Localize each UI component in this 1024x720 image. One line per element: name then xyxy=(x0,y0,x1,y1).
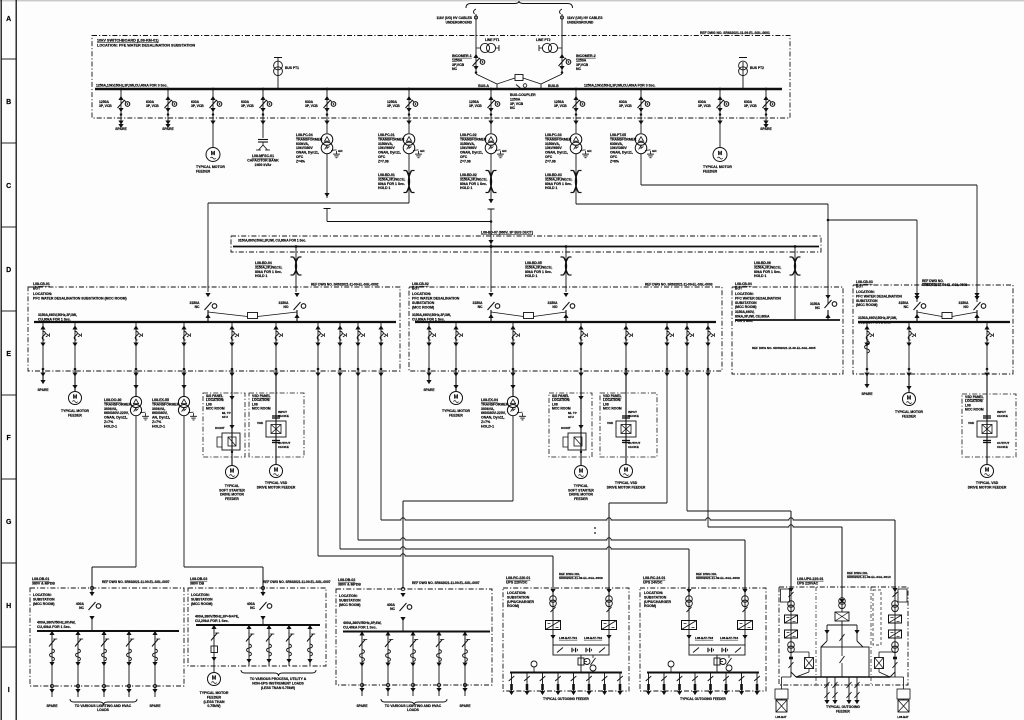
CB-03 motor feeder xyxy=(908,322,910,372)
UPS AC inner partition xyxy=(815,587,817,685)
MV motor feeder right (630A) xyxy=(719,89,721,147)
wire left MCC f7 to UPS1 incomer 1 xyxy=(318,554,553,556)
svg-text:REF DWG NO. SR632021-11-09-EL-: REF DWG NO. SR632021-11-09-EL-SGL-0007 xyxy=(263,580,331,584)
svg-text:L08-BAT: L08-BAT xyxy=(897,715,909,719)
cable termination to CB-04 route xyxy=(324,208,331,210)
left MCC long feeder 10 xyxy=(380,322,382,372)
UPS AC output bus and feeders xyxy=(796,676,890,678)
svg-text:(MCC ROOM): (MCC ROOM) xyxy=(412,306,434,310)
svg-text:LOCATION:: LOCATION: xyxy=(191,593,210,597)
svg-text:UNDERGROUND: UNDERGROUND xyxy=(446,21,473,25)
DB-01 underbrace lighting loads xyxy=(70,699,137,705)
svg-text:L08-BD-03: L08-BD-03 xyxy=(545,173,562,177)
svg-text:L08-BD-04: L08-BD-04 xyxy=(255,261,272,265)
UPS incomer at 689 xyxy=(688,588,690,645)
svg-text:CU,80kA FOR 1 Sec.: CU,80kA FOR 1 Sec. xyxy=(38,317,71,321)
UPS bypass switch xyxy=(592,655,594,658)
svg-text:380V & MPDB: 380V & MPDB xyxy=(32,581,55,585)
svg-text:G: G xyxy=(6,519,12,526)
MV transformer feeder L08-PC-01 3150kVA xyxy=(408,89,410,133)
svg-text:UPS 220VDC: UPS 220VDC xyxy=(506,580,528,584)
svg-text:I: I xyxy=(8,687,10,694)
svg-text:BOT: BOT xyxy=(735,286,743,290)
svg-text:HOLD 1: HOLD 1 xyxy=(378,186,391,190)
CB-04 incomer breaker xyxy=(825,295,830,299)
MV capacitor bank feeder (630A) xyxy=(262,89,264,138)
svg-text:NO: NO xyxy=(963,305,968,309)
svg-text:L08-CB-03: L08-CB-03 xyxy=(856,280,873,284)
svg-text:FEEDER: FEEDER xyxy=(68,413,82,417)
center MCC long feeder 6 xyxy=(666,322,668,372)
MCC L08-CB-04 dashed enclosure xyxy=(732,287,843,374)
UPS dc link to bus xyxy=(716,655,718,673)
svg-text:M: M xyxy=(579,469,584,475)
svg-text:NC: NC xyxy=(815,306,820,310)
UPS DC bus xyxy=(647,672,759,674)
UPS AC system L08-UPS-220-01 enclosure xyxy=(779,587,908,685)
svg-text:CHOKE: CHOKE xyxy=(997,414,1008,418)
bus PT1 xyxy=(277,62,279,89)
svg-text:FEEDER: FEEDER xyxy=(574,497,588,501)
UPS AC inner output box xyxy=(821,647,869,677)
svg-text:REF DWG NO. SR632021-11-09-EL-: REF DWG NO. SR632021-11-09-EL-SGL-0007 xyxy=(412,581,480,585)
svg-text:L08-CB-01: L08-CB-01 xyxy=(33,282,50,286)
CB-03 feeder spare xyxy=(866,322,868,372)
svg-text:3150A,660V,50Hz,3P,3W, CU,80kA: 3150A,660V,50Hz,3P,3W, CU,80kA FOR 1 Sec… xyxy=(238,239,306,243)
svg-text:Z=7%: Z=7% xyxy=(104,420,114,424)
svg-text:LOCATION:: LOCATION: xyxy=(735,292,754,296)
svg-text:SPARE: SPARE xyxy=(861,392,873,396)
svg-text:SPARE: SPARE xyxy=(356,704,368,708)
svg-text:NC: NC xyxy=(904,305,909,309)
MV transformer feeder L08-PC-03 3150kVA xyxy=(575,89,577,133)
svg-text:L08-BAT-T04: L08-BAT-T04 xyxy=(720,636,738,640)
svg-text:HOLD 1: HOLD 1 xyxy=(545,186,558,190)
MV feeder spare 1 (1250A) xyxy=(120,89,122,124)
svg-text:HOLD 1: HOLD 1 xyxy=(754,274,767,278)
svg-text:FEEDER: FEEDER xyxy=(196,169,211,173)
svg-text:630kVA,: 630kVA, xyxy=(610,142,623,146)
svg-text:400A,380V/50Hz,3P,4W,: 400A,380V/50Hz,3P,4W, xyxy=(37,621,75,625)
left MCC motor feeder xyxy=(74,322,76,372)
svg-text:ROOM): ROOM) xyxy=(644,604,656,608)
ellipsis marks xyxy=(594,527,596,529)
wire left xfmr f4 to DB-03 incomer xyxy=(184,566,263,568)
svg-text:(UPS/CHARGER: (UPS/CHARGER xyxy=(644,600,672,604)
DB-03 feeders xyxy=(248,625,250,666)
svg-text:80kA FOR 1 Sec.: 80kA FOR 1 Sec. xyxy=(255,270,282,274)
bus-coupler breaker on bus xyxy=(516,85,522,90)
UPS AC rectifier branch left xyxy=(790,587,792,677)
svg-text:TYPICAL OUTGOING FEEDER: TYPICAL OUTGOING FEEDER xyxy=(543,697,589,701)
svg-text:D: D xyxy=(6,267,11,274)
main 11kV bus xyxy=(95,88,782,91)
bus duct drop L08-BD-04 to left MCC xyxy=(295,247,297,293)
incomer cable 2 (11kV UG HV cables) xyxy=(560,9,562,14)
bus duct drop L08-BD-05 to center MCC xyxy=(565,247,567,293)
svg-text:BUS PT1: BUS PT1 xyxy=(285,66,299,70)
svg-text:ICONT: ICONT xyxy=(215,426,225,430)
svg-text:CU,80kA FOR 1 Sec.: CU,80kA FOR 1 Sec. xyxy=(412,317,445,321)
svg-text:80kA FOR 1 Sec.: 80kA FOR 1 Sec. xyxy=(525,270,552,274)
UPS DC bus xyxy=(510,672,622,674)
UPS enclosure L08-RC-220-01 xyxy=(503,588,629,691)
left MCC VSD panel feeder xyxy=(275,322,277,372)
svg-text:3P, VCB: 3P, VCB xyxy=(99,104,112,108)
svg-text:400A,380V/50Hz,3P+N+PE,: 400A,380V/50Hz,3P+N+PE, xyxy=(195,615,239,619)
svg-text:3P, VCB: 3P, VCB xyxy=(241,104,254,108)
svg-text:LOCATION:: LOCATION: xyxy=(507,591,526,595)
svg-text:3P, VCB: 3P, VCB xyxy=(619,104,632,108)
svg-text:L08-DB-01: L08-DB-01 xyxy=(32,577,49,581)
UPS bypass switch xyxy=(728,655,730,658)
svg-text:Z=7.08: Z=7.08 xyxy=(460,159,471,163)
svg-text:660/380V-220V,: 660/380V-220V, xyxy=(104,411,129,415)
incoming cable brace xyxy=(466,1,573,8)
svg-text:11kV (UG) HV CABLES: 11kV (UG) HV CABLES xyxy=(436,16,472,20)
left MCC soft-starter panel feeder xyxy=(231,322,233,372)
svg-text:3P,VCB: 3P,VCB xyxy=(452,63,465,67)
left MCC long feeder 9 xyxy=(357,322,359,372)
incomer-2 breaker 1250A 3P VCB NC xyxy=(561,48,563,74)
svg-text:(MCC ROOM): (MCC ROOM) xyxy=(191,602,212,606)
svg-text:SR632021-11-09-EL-SGL-0009: SR632021-11-09-EL-SGL-0009 xyxy=(559,576,603,580)
distribution board L08-DB-01 enclosure xyxy=(30,588,184,686)
svg-text:TYPICAL OUTGOING FEEDER: TYPICAL OUTGOING FEEDER xyxy=(680,697,726,701)
svg-text:(MCC ROOM): (MCC ROOM) xyxy=(856,303,877,307)
bus duct conductor xyxy=(233,246,819,248)
svg-text:300kVA,: 300kVA, xyxy=(104,407,117,411)
svg-text:TRANSFORMER: TRANSFORMER xyxy=(610,137,637,141)
svg-text:80kA FOR 1 Sec.: 80kA FOR 1 Sec. xyxy=(378,182,405,186)
svg-text:LINE PT2: LINE PT2 xyxy=(536,38,551,42)
wire left MCC f10 to UPS3 incomer 3 xyxy=(381,518,895,520)
svg-text:OFC: OFC xyxy=(545,155,553,159)
svg-text:FEEDER: FEEDER xyxy=(902,414,916,418)
svg-text:L08-BD-05: L08-BD-05 xyxy=(525,261,542,265)
svg-text:3P, VCB: 3P, VCB xyxy=(698,104,711,108)
svg-text:HOLD-1: HOLD-1 xyxy=(481,424,494,428)
svg-text:L08-PC-01: L08-PC-01 xyxy=(378,133,395,137)
svg-text:10kV/660V: 10kV/660V xyxy=(378,146,396,150)
svg-text:3P, VCB: 3P, VCB xyxy=(510,102,524,106)
svg-text:3P,VCB: 3P,VCB xyxy=(576,63,589,67)
svg-text:HOLD-1: HOLD-1 xyxy=(104,424,117,428)
svg-text:NC: NC xyxy=(510,106,516,110)
svg-text:BUS-B: BUS-B xyxy=(548,84,559,88)
left MCC bus xyxy=(34,321,396,323)
UPS incomer at 553 xyxy=(552,588,554,645)
center MCC incomer downcomer xyxy=(490,247,492,292)
svg-text:L08-DO-30: L08-DO-30 xyxy=(104,398,122,402)
svg-text:(MCC ROOM): (MCC ROOM) xyxy=(33,602,54,606)
svg-text:SFU: SFU xyxy=(222,415,228,419)
svg-text:L08-MFSC-01: L08-MFSC-01 xyxy=(252,154,274,158)
svg-text:FEEDER: FEEDER xyxy=(703,169,718,173)
MV transformer feeder L08-PC-02 3150kVA xyxy=(490,89,492,133)
svg-text:660/380V-220V,: 660/380V-220V, xyxy=(481,411,506,415)
svg-text:TRANSFORMER: TRANSFORMER xyxy=(152,402,180,406)
svg-text:LOADS: LOADS xyxy=(97,708,110,712)
svg-text:L08-CB-04: L08-CB-04 xyxy=(735,282,752,286)
svg-text:Z=7.08: Z=7.08 xyxy=(545,159,556,163)
left MCC transformer feeder L08-EX-55 xyxy=(183,322,185,372)
svg-text:M: M xyxy=(212,676,217,682)
svg-text:L08-PT-05: L08-PT-05 xyxy=(610,133,626,137)
UPS bus voltmeter stub xyxy=(670,667,672,673)
MV feeder spare right (630A) xyxy=(765,89,767,124)
11kV switchboard dashed enclosure L08-KM-01 xyxy=(92,36,790,119)
svg-text:HOLD 1: HOLD 1 xyxy=(255,274,268,278)
svg-text:L08-EX-04: L08-EX-04 xyxy=(481,398,498,402)
svg-text:FEEDER: FEEDER xyxy=(225,497,239,501)
svg-text:380V & MPDB: 380V & MPDB xyxy=(338,582,361,586)
svg-text:SR632021-11-09-EL-SGL-0008: SR632021-11-09-EL-SGL-0008 xyxy=(922,283,967,287)
incomer-1 breaker 1250A 3P VCB NC xyxy=(475,48,477,74)
bus duct L08-BD-07 dashed enclosure xyxy=(231,236,821,252)
DB-01 feeders xyxy=(51,631,53,697)
svg-text:TO VARIOUS PROCESS, UTILITY &: TO VARIOUS PROCESS, UTILITY & xyxy=(250,677,307,681)
svg-text:SUBSTATION: SUBSTATION xyxy=(33,597,55,601)
svg-text:ONAN, Dyn11,: ONAN, Dyn11, xyxy=(610,151,633,155)
MCC L08-CB-03 dashed enclosure xyxy=(853,285,1013,374)
DB-02 underbrace lighting loads xyxy=(381,699,447,705)
svg-text:3150A,3P,3W,CU,: 3150A,3P,3W,CU, xyxy=(378,177,405,181)
svg-text:A: A xyxy=(6,16,11,23)
incomer cable 1 (11kV UG HV cables) xyxy=(474,9,476,14)
svg-text:PFC WATER DESALINATION: PFC WATER DESALINATION xyxy=(412,297,460,301)
svg-text:LOCATION:: LOCATION: xyxy=(33,593,52,597)
svg-text:SPARE: SPARE xyxy=(423,388,435,392)
center MCC L08-CB-02 dashed enclosure xyxy=(409,287,722,371)
UPS AC battery right xyxy=(875,658,884,669)
UPS AC side compartment labels xyxy=(781,589,790,602)
UPS battery tie assembly xyxy=(689,645,745,655)
svg-text:L08-UPS-220-01: L08-UPS-220-01 xyxy=(797,577,824,581)
wire T-PC-03 to CB-04 and CB-03 xyxy=(576,203,828,205)
svg-text:FEEDER: FEEDER xyxy=(836,709,850,713)
svg-text:LOCATION:: LOCATION: xyxy=(33,292,52,296)
svg-text:M: M xyxy=(274,468,279,474)
wire center MCC f7 to UPS3 incomer 1 xyxy=(687,510,791,512)
svg-text:NO: NO xyxy=(552,305,557,309)
svg-text:VSD: VSD xyxy=(968,421,975,425)
svg-text:3P, VCB: 3P, VCB xyxy=(146,104,159,108)
center MCC long feeder 8 xyxy=(707,322,709,372)
svg-text:(LESS TNAN 0.75kW): (LESS TNAN 0.75kW) xyxy=(261,686,295,690)
svg-text:UPS 24VDC: UPS 24VDC xyxy=(643,580,663,584)
svg-text:3150kVA,: 3150kVA, xyxy=(378,142,393,146)
center MCC incomer breakers xyxy=(488,293,493,297)
UPS incomer at 745 xyxy=(744,588,746,645)
svg-text:MCC ROOM: MCC ROOM xyxy=(206,407,225,411)
svg-text:FEEDER: FEEDER xyxy=(207,695,222,699)
svg-text:80kA FOR 1 Sec.: 80kA FOR 1 Sec. xyxy=(460,182,487,186)
svg-text:FEEDER: FEEDER xyxy=(449,413,463,417)
svg-text:3P, VCB: 3P, VCB xyxy=(744,104,757,108)
svg-text:3150kVA,: 3150kVA, xyxy=(545,142,560,146)
svg-text:HOLD 1: HOLD 1 xyxy=(525,274,538,278)
svg-text:CAPACITOR BANK: CAPACITOR BANK xyxy=(247,158,279,162)
svg-text:L08-RC-24-01: L08-RC-24-01 xyxy=(643,576,665,580)
svg-text:L08-BAT-T02: L08-BAT-T02 xyxy=(584,636,602,640)
svg-text:Z=4%: Z=4% xyxy=(296,159,305,163)
wire left MCC f8 to UPS2 incomer 1 xyxy=(340,547,689,549)
bus duct stub L08-BD-02 xyxy=(489,171,492,193)
left MCC feeder spare xyxy=(42,322,44,372)
svg-text:NC: NC xyxy=(452,67,458,71)
left MCC long feeder 8 xyxy=(339,322,341,372)
svg-text:BUS-A: BUS-A xyxy=(478,84,489,88)
svg-text:ROOM): ROOM) xyxy=(507,604,519,608)
svg-text:SR632021-11-09-EL-SGL-0009: SR632021-11-09-EL-SGL-0009 xyxy=(696,576,740,580)
left MCC transformer feeder L08-DO-30 xyxy=(135,322,137,372)
svg-text:3150A,3P,3W,CU,: 3150A,3P,3W,CU, xyxy=(460,177,487,181)
svg-text:REF DWG NO. SR632021-11-09-EL-: REF DWG NO. SR632021-11-09-EL-SGL-0003 xyxy=(645,283,713,287)
svg-text:3150A,3P,3W,CU,: 3150A,3P,3W,CU, xyxy=(255,265,282,269)
svg-text:80kA FOR 1 Sec.: 80kA FOR 1 Sec. xyxy=(754,270,781,274)
left MCC L08-CB-01 dashed enclosure xyxy=(28,287,400,371)
wire T-PT-05 to CB-03 incomer 2 xyxy=(641,184,977,186)
svg-text:SUBSTATION: SUBSTATION xyxy=(507,595,530,599)
svg-text:630kVA,: 630kVA, xyxy=(296,142,309,146)
svg-text:380V DB: 380V DB xyxy=(190,581,205,585)
UPS battery tie assembly xyxy=(553,645,609,655)
svg-text:LOCATION:: LOCATION: xyxy=(856,290,875,294)
svg-text:M: M xyxy=(211,151,216,157)
svg-text:L08-PC-03: L08-PC-03 xyxy=(545,133,562,137)
MV motor feeder (630A) xyxy=(212,89,214,147)
svg-text:400A,380V/50Hz,3P,4W,: 400A,380V/50Hz,3P,4W, xyxy=(343,621,381,625)
svg-text:NC: NC xyxy=(478,305,483,309)
svg-text:M: M xyxy=(624,468,629,474)
svg-text:Z=7%: Z=7% xyxy=(152,420,162,424)
svg-text:SPARE: SPARE xyxy=(115,127,127,131)
svg-text:SPARE: SPARE xyxy=(37,388,49,392)
svg-text:10kV/660V: 10kV/660V xyxy=(545,146,563,150)
wire left xfmr f3 to DB-01 incomer xyxy=(92,566,136,568)
svg-text:LOCATION:: LOCATION: xyxy=(644,591,663,595)
bus PT2 xyxy=(742,62,744,89)
svg-text:TRANSFORMER: TRANSFORMER xyxy=(460,137,487,141)
svg-text:ONAN, Dyn11,: ONAN, Dyn11, xyxy=(378,151,401,155)
svg-text:B: B xyxy=(6,99,11,106)
svg-text:1250A,10kV,50Hz,3P,3W,CU,40kA: 1250A,10kV,50Hz,3P,3W,CU,40kA FOR 3 Sec. xyxy=(584,84,656,88)
svg-text:L08-BD-06: L08-BD-06 xyxy=(754,261,771,265)
svg-text:660/380V,: 660/380V, xyxy=(152,411,168,415)
svg-text:11kV (UG) HV CABLES: 11kV (UG) HV CABLES xyxy=(567,16,603,20)
UPS enclosure L08-RC-24-01 xyxy=(640,588,766,691)
UPS outgoing feeders xyxy=(648,673,650,695)
MV transformer feeder L08-PC-04 630kVA xyxy=(326,89,328,133)
svg-text:BOT: BOT xyxy=(33,286,41,290)
svg-text:3150A,3P,3W,CU,: 3150A,3P,3W,CU, xyxy=(525,265,552,269)
svg-text:OFC: OFC xyxy=(378,155,386,159)
svg-text:CHOKE: CHOKE xyxy=(997,445,1008,449)
svg-text:SUBSTATION: SUBSTATION xyxy=(856,299,878,303)
svg-text:E: E xyxy=(6,351,11,358)
wire center MCC f6 to UPS1 incomer 2 xyxy=(609,502,667,504)
svg-text:Z=6%: Z=6% xyxy=(610,159,619,163)
svg-text:CHOKE: CHOKE xyxy=(628,445,639,449)
bus duct drop L08-BD-06 to CB-04 xyxy=(794,247,796,321)
svg-text:LOADS: LOADS xyxy=(407,708,420,712)
svg-text:INCOMER-2: INCOMER-2 xyxy=(576,54,596,58)
svg-text:SUBSTATION: SUBSTATION xyxy=(735,301,757,305)
svg-text:3P, VCB: 3P, VCB xyxy=(554,104,567,108)
svg-text:(UPS/CHARGER: (UPS/CHARGER xyxy=(507,600,535,604)
svg-text:1250A,10kV,50Hz,3P,3W,CU,40kA: 1250A,10kV,50Hz,3P,3W,CU,40kA FOR 3 Sec. xyxy=(96,84,168,88)
svg-text:L08-BAT-T03: L08-BAT-T03 xyxy=(695,636,713,640)
svg-text:TRANSFORMER: TRANSFORMER xyxy=(481,402,509,406)
svg-text:REF DWG NO. SR632021-11-09-EL-: REF DWG NO. SR632021-11-09-EL-SGL-0001 xyxy=(700,31,770,35)
svg-text:NO: NO xyxy=(283,305,288,309)
svg-text:HOLD-1: HOLD-1 xyxy=(152,424,165,428)
svg-text:OFC: OFC xyxy=(460,155,468,159)
svg-text:(MCC ROOM): (MCC ROOM) xyxy=(339,603,360,607)
svg-text:ICONT: ICONT xyxy=(561,426,571,430)
svg-text:NC: NC xyxy=(250,606,255,610)
svg-text:NC: NC xyxy=(576,67,582,71)
svg-text:3150A,3P,3W,CU,: 3150A,3P,3W,CU, xyxy=(545,177,572,181)
svg-text:PFC WATER DESALINATION: PFC WATER DESALINATION xyxy=(735,296,781,300)
svg-text:M: M xyxy=(230,469,235,475)
svg-text:LOCATION: PFE WATER DESALINATI: LOCATION: PFE WATER DESALINATION SUBSTAT… xyxy=(97,44,195,48)
svg-text:10kV SWITCHBOARD (L08-KM-01): 10kV SWITCHBOARD (L08-KM-01) xyxy=(97,39,159,43)
svg-text:SUBSTATION: SUBSTATION xyxy=(191,597,213,601)
svg-text:(LESS THAN: (LESS THAN xyxy=(204,700,225,704)
svg-text:3150A,660V,: 3150A,660V, xyxy=(735,310,755,314)
UPS AC output switch xyxy=(841,625,843,647)
svg-text:REF DWG NO. SR632021-11-09-EL-: REF DWG NO. SR632021-11-09-EL-SGL-0002 xyxy=(311,283,379,287)
left MCC long feeder 7 xyxy=(317,322,319,372)
distribution board L08-DB-03 enclosure xyxy=(188,588,326,666)
svg-text:80kA FOR 1 Sec.: 80kA FOR 1 Sec. xyxy=(545,182,572,186)
svg-text:PFC WATER DESALINATION SUBSTAT: PFC WATER DESALINATION SUBSTATION (MCC R… xyxy=(33,297,127,301)
svg-text:L08-RC-220-01: L08-RC-220-01 xyxy=(506,576,530,580)
distribution board L08-DB-02 enclosure xyxy=(336,589,492,685)
svg-text:DRIVE MOTOR FEEDER: DRIVE MOTOR FEEDER xyxy=(968,485,1007,489)
svg-text:CU,40kA FOR 1 Sec.: CU,40kA FOR 1 Sec. xyxy=(343,625,377,629)
svg-text:TRANSFORMER: TRANSFORMER xyxy=(545,137,572,141)
svg-text:UNDERGROUND: UNDERGROUND xyxy=(567,21,594,25)
UPS outgoing feeders xyxy=(511,673,513,695)
svg-text:2400 kVAr: 2400 kVAr xyxy=(255,163,272,167)
svg-text:L08-BAT-T01: L08-BAT-T01 xyxy=(559,636,577,640)
svg-text:BUS PT2: BUS PT2 xyxy=(750,66,764,70)
CB-03 bus xyxy=(858,321,1010,323)
svg-text:Z=7.08: Z=7.08 xyxy=(378,159,389,163)
svg-text:L08-BD-02: L08-BD-02 xyxy=(460,173,477,177)
UPS AC bottom-right cabinet xyxy=(897,689,910,699)
UPS AC rectifier branch right xyxy=(894,587,896,677)
svg-text:CU,40kA FOR 1 Sec.: CU,40kA FOR 1 Sec. xyxy=(37,625,71,629)
svg-text:SR632021-11-09-EL-SGL-0010: SR632021-11-09-EL-SGL-0010 xyxy=(847,575,891,579)
CB-03 incomer breakers xyxy=(914,293,919,297)
UPS incomer at 609 xyxy=(608,588,610,645)
svg-text:MCC ROOM: MCC ROOM xyxy=(965,408,984,412)
svg-text:L08-PC-02: L08-PC-02 xyxy=(460,133,477,137)
svg-text:M: M xyxy=(718,151,723,157)
UPS AC static switch center xyxy=(841,598,843,612)
svg-text:L08-DB-03: L08-DB-03 xyxy=(190,577,207,581)
svg-text:VSD: VSD xyxy=(257,421,264,425)
svg-text:CHOKE: CHOKE xyxy=(278,445,289,449)
svg-text:ONAN, Dyn11,: ONAN, Dyn11, xyxy=(104,416,128,420)
svg-text:SUBSTATION: SUBSTATION xyxy=(412,301,435,305)
svg-text:(MCC ROOM): (MCC ROOM) xyxy=(735,305,756,309)
drawing border frame with row letters xyxy=(0,0,1024,2)
